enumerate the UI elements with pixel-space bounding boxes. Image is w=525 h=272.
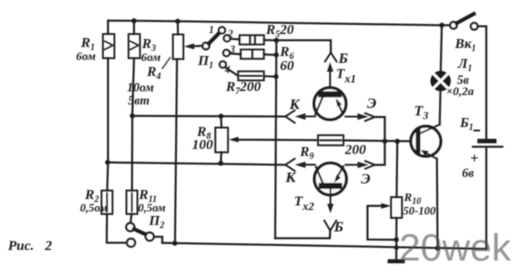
svg-text:5вт: 5вт <box>128 94 150 108</box>
wire base bus (R5/R6/R7 junction down to box bottom) <box>275 40 276 238</box>
svg-text:200: 200 <box>344 143 366 158</box>
node Э socket of Tx1 (open chevron) <box>365 113 375 121</box>
resistor R3 <box>129 34 141 58</box>
resistor R7 <box>238 71 264 80</box>
transistor T3 <box>411 125 441 159</box>
switch П1 contact 2 <box>224 35 230 41</box>
node K1 wire / R8 top <box>219 114 224 119</box>
ground bar at R10 bottom <box>388 259 405 263</box>
node base wire / R10 column <box>395 139 400 144</box>
svg-text:2: 2 <box>44 239 52 254</box>
switch П2 open contact (from R2) <box>127 239 135 247</box>
wire П2 throw contact to bottom rail <box>153 237 162 243</box>
switch П1 common contact <box>203 43 210 50</box>
svg-text:Б: Б <box>333 220 344 236</box>
wire Tx1 base plug arrow <box>327 62 333 88</box>
wire contact3 to R6 <box>230 52 241 55</box>
node K socket of Tx2 (open chevron) <box>285 159 294 171</box>
node top rail / lamp column <box>439 23 444 28</box>
svg-text:20wek: 20wek <box>399 228 512 270</box>
wire lamp bottom to T3 collector <box>439 91 442 124</box>
resistor R6 <box>241 50 264 59</box>
wire R11 bottom to П2 common <box>130 214 131 223</box>
wire Tx2 collector plug arrow <box>295 162 315 168</box>
node Э socket of Tx2 (open chevron) <box>365 161 375 169</box>
node bus / R5 <box>274 38 279 43</box>
wire R10 bottom lead to ground <box>395 218 397 260</box>
wire R4 column down to bottom rail <box>175 59 177 243</box>
node K socket of Tx1 (open chevron) <box>285 110 294 122</box>
svg-text:Э: Э <box>367 96 377 112</box>
node bus / R6 <box>274 52 279 57</box>
svg-text:К: К <box>285 170 297 186</box>
resistor R2 <box>102 191 113 215</box>
wire R8 top lead <box>220 116 223 127</box>
wire base feed to Tx1 Б connector <box>276 40 330 52</box>
svg-text:R520: R520 <box>265 23 294 39</box>
svg-text:6ом: 6ом <box>76 49 96 63</box>
wire Вк1 to battery column <box>478 26 487 138</box>
svg-text:4: 4 <box>224 65 230 76</box>
wire K row of Tx1 from R3 column <box>132 115 285 118</box>
node Б socket of Tx2 (open chevron) <box>324 221 336 231</box>
node bottom rail / R10 column <box>394 245 399 250</box>
svg-text:R7200: R7200 <box>225 80 261 96</box>
wire top rail <box>108 21 450 26</box>
wire R5 to bus <box>264 39 276 41</box>
svg-text:0,5ом: 0,5ом <box>80 203 108 215</box>
wire contact2 to R5 <box>230 38 239 41</box>
lamp Л1 <box>430 71 450 91</box>
wire R1 top stub <box>107 21 109 34</box>
svg-text:К: К <box>289 97 301 113</box>
potentiometer R10 <box>381 197 402 218</box>
wire R10 wiper loop <box>368 206 397 240</box>
wire lamp column top <box>441 25 442 71</box>
wire Tx1 Э to base-wire junction <box>375 117 385 141</box>
resistor R5 <box>240 35 265 44</box>
resistor R9 <box>318 135 344 145</box>
node K2 wire / R8 bottom <box>218 161 223 166</box>
wire K row of Tx2 from R1 column <box>108 162 286 164</box>
switch П1 lever <box>209 33 220 44</box>
switch П1 wiper arrow to R4 <box>184 43 202 49</box>
node bottom rail / T3 emitter <box>435 246 440 251</box>
wire R8 bottom lead <box>220 152 223 163</box>
switch П1 contact 4 <box>220 61 226 67</box>
transistor Tx1 (socket circle) <box>314 88 346 120</box>
svg-text:60: 60 <box>280 59 294 74</box>
switch П2 lever <box>134 229 146 235</box>
wire Tx2 emitter plug arrow <box>346 162 369 169</box>
svg-text:50-100: 50-100 <box>403 206 436 218</box>
potentiometer R8 <box>215 128 238 153</box>
svg-text:100: 100 <box>192 138 213 153</box>
wire R9 to T3 base <box>344 139 417 142</box>
wire R3 column down to R11 <box>132 58 134 190</box>
wire box bottom to Tx2 Б <box>275 231 330 238</box>
wire contact4 to R7 <box>225 67 238 76</box>
rheostat R4 <box>173 34 184 59</box>
svg-text:1: 1 <box>209 25 214 36</box>
wire Tx2 Э to base-wire junction <box>375 141 385 165</box>
svg-text:Э: Э <box>361 172 371 188</box>
switch Вк1 contact left <box>450 22 457 29</box>
svg-text:2: 2 <box>227 29 233 40</box>
switch П1 contact 1 <box>219 27 225 33</box>
wire R7 to bus <box>264 75 276 77</box>
svg-text:3: 3 <box>229 45 235 56</box>
wire R4 top stub <box>177 21 179 34</box>
wire R3 top stub <box>133 21 135 34</box>
svg-text:Б: Б <box>338 51 349 67</box>
switch Вк1 lever <box>457 14 474 23</box>
wire Tx1 emitter plug arrow <box>346 113 369 120</box>
wire T3 emitter column to bottom rail <box>436 159 439 248</box>
svg-text:10ом: 10ом <box>127 81 154 95</box>
node base wire / Э bus <box>382 139 387 144</box>
wire R6 to bus <box>264 53 276 56</box>
svg-text:6в: 6в <box>462 166 474 180</box>
switch П1 contact 3 <box>223 50 229 56</box>
wire R2 bottom to open contact of П2 <box>107 214 127 243</box>
svg-text:+: + <box>470 151 479 167</box>
wire battery to bottom rail <box>485 148 487 249</box>
switch Вк1 contact right <box>471 23 478 30</box>
battery Б1 <box>473 139 503 147</box>
wire Tx2 base plug arrow <box>327 189 333 214</box>
node bus / R7 <box>274 74 279 79</box>
wire R8 wiper to R9 <box>235 139 319 141</box>
node K1 wire / R3 column <box>130 113 135 118</box>
node top rail / R4 <box>175 19 180 24</box>
resistor R1 <box>103 34 115 58</box>
node K2 wire / R1 column <box>105 160 110 165</box>
svg-text:6ом: 6ом <box>141 50 161 64</box>
resistor R11 <box>126 191 137 215</box>
wire R1 column down to R2 <box>106 58 109 190</box>
svg-text:Рис.: Рис. <box>8 239 34 254</box>
svg-text:×0,2а: ×0,2а <box>446 84 474 98</box>
label battery minus <box>474 130 481 132</box>
wire bottom rail <box>162 243 486 249</box>
node R10 loop / R10 column <box>394 237 399 242</box>
node top rail / R3 <box>132 18 137 23</box>
wire Tx1 collector plug arrow <box>295 113 315 119</box>
transistor Tx2 (socket circle) <box>314 163 346 195</box>
wire R10 top lead <box>396 141 399 197</box>
node bottom rail / R4 column <box>172 241 177 246</box>
svg-text:0,5ом: 0,5ом <box>138 203 166 215</box>
node Б socket of Tx1 (open chevron) <box>325 53 337 62</box>
switch П2 throw contact <box>146 233 154 241</box>
switch П2 common contact <box>126 223 134 231</box>
